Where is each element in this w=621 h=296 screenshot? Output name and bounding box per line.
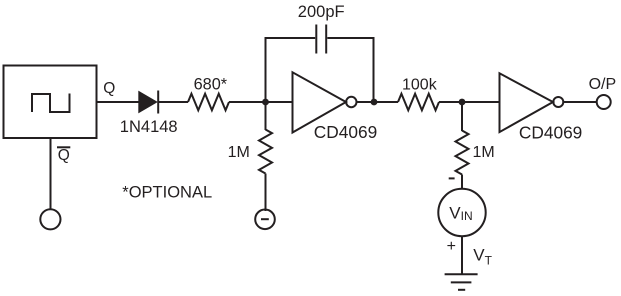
svg-text:VIN: VIN (449, 203, 472, 223)
wire node A to inverter U1 input (266, 101, 293, 103)
wire node A down to R3 (265, 102, 267, 130)
svg-text:+: + (447, 238, 456, 255)
resistor R3 1M (left) (259, 130, 272, 174)
wire feedback top-left to capacitor (265, 37, 316, 39)
resistor R2 100k (398, 94, 439, 111)
svg-text:100k: 100k (402, 76, 438, 93)
svg-text:O/P: O/P (589, 76, 617, 93)
wire node A up to feedback rail (265, 37, 267, 102)
wire feedback down to node B (373, 37, 375, 102)
svg-text:Q: Q (103, 80, 115, 97)
ground symbol (445, 273, 478, 275)
wire R1 to node A (229, 101, 266, 103)
svg-text:1M: 1M (228, 144, 250, 161)
wire node C down to R4 (461, 102, 463, 131)
wire diode to resistor 680 (158, 101, 188, 103)
node C junction dot (459, 99, 466, 106)
voltage source VIN (438, 189, 485, 236)
svg-text:1N4148: 1N4148 (120, 118, 178, 136)
svg-text:200pF: 200pF (298, 3, 345, 21)
wire VIN to ground (461, 236, 463, 274)
diode D1 1N4148 (138, 91, 158, 114)
O/P terminal circle (597, 95, 611, 109)
svg-text:*OPTIONAL: *OPTIONAL (122, 183, 212, 201)
svg-text:CD4069: CD4069 (314, 122, 377, 142)
wire source Qbar down (50, 138, 52, 209)
node A junction dot (262, 99, 269, 106)
wire source Q to diode D1 (97, 101, 140, 103)
svg-text:Q: Q (58, 147, 70, 164)
inverter U1 CD4069 (293, 72, 347, 132)
resistor R4 1M (right) (456, 131, 469, 175)
svg-text:1M: 1M (473, 144, 495, 161)
svg-text:CD4069: CD4069 (519, 122, 582, 142)
minus reference terminal (circled minus) (255, 210, 275, 230)
Qbar terminal circle (40, 209, 60, 229)
label minus polarity of VIN (449, 177, 455, 179)
inverter U2 CD4069 (500, 73, 554, 132)
wire R2 to node C (439, 101, 462, 103)
wire node C to inverter U2 input (462, 101, 500, 103)
capacitor C1 200pF (315, 25, 317, 54)
label Qbar (overline) (57, 146, 70, 148)
wire U1 output through node B to R2 (357, 101, 399, 103)
wire capacitor to feedback top-right (327, 37, 374, 39)
node B junction dot (371, 99, 378, 106)
wire U2 output to O/P terminal (563, 101, 596, 103)
square-wave source block (4, 66, 97, 139)
wire R4 to VIN source (461, 175, 463, 190)
svg-text:680*: 680* (194, 75, 228, 93)
resistor R1 680* (188, 94, 229, 111)
svg-text:VT: VT (473, 245, 492, 267)
square-wave symbol inside source (32, 94, 70, 113)
wire R3 down to minus terminal (265, 174, 267, 212)
